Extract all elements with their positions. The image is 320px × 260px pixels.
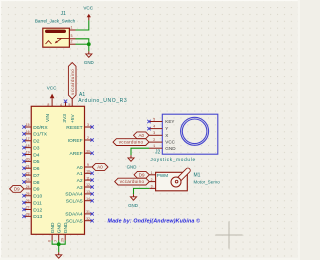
svg-text:32: 32 [86, 217, 90, 221]
joystick pin X (3) [149, 134, 162, 136]
pin GND (29) [64, 235, 66, 241]
connector J1 body [43, 28, 70, 47]
svg-text:J1: J1 [61, 11, 67, 17]
servo pin 1 [149, 174, 155, 176]
svg-text:D9: D9 [33, 187, 40, 193]
svg-text:31: 31 [86, 210, 90, 214]
pin D6 (21) [24, 167, 31, 169]
joystick pin KEY (5) [149, 121, 162, 123]
svg-text:D2: D2 [33, 139, 40, 145]
svg-text:23: 23 [26, 178, 30, 182]
svg-text:4: 4 [153, 125, 155, 129]
svg-text:28: 28 [26, 213, 30, 217]
J1 switch contact [56, 38, 70, 42]
wire J1.2 [76, 43, 89, 45]
svg-text:IOREF: IOREF [68, 138, 83, 144]
svg-text:3: 3 [151, 185, 153, 189]
svg-text:M1: M1 [194, 173, 201, 179]
svg-text:19: 19 [26, 151, 30, 155]
servo arm [174, 167, 191, 184]
pin RESET (3) [85, 126, 92, 128]
svg-text:1: 1 [71, 25, 73, 29]
pin IOREF (2) [85, 139, 92, 141]
svg-text:25: 25 [26, 192, 30, 196]
svg-text:3: 3 [71, 34, 73, 38]
svg-text:3: 3 [87, 123, 89, 127]
svg-text:A1: A1 [77, 171, 83, 177]
svg-text:X: X [165, 133, 168, 138]
svg-text:A3: A3 [77, 185, 83, 191]
svg-text:KEY: KEY [165, 119, 174, 124]
svg-text:A0: A0 [138, 133, 144, 138]
pin D10 (25) [24, 195, 31, 197]
svg-text:D9: D9 [14, 186, 20, 191]
svg-text:GND: GND [127, 164, 137, 169]
svg-text:D8: D8 [33, 180, 40, 186]
ground bottom [58, 252, 60, 255]
ground below J1 [88, 51, 90, 54]
svg-text:Arduino_UNO_R3: Arduino_UNO_R3 [78, 98, 127, 104]
wire J1.3 down [76, 39, 89, 44]
svg-text:1: 1 [151, 171, 153, 175]
joystick pin GND (1) [149, 147, 162, 149]
svg-text:2: 2 [151, 178, 153, 182]
wire to bottom gnd [58, 244, 60, 252]
svg-text:vccarduino: vccarduino [70, 69, 75, 95]
pin SDA/A4 (13) [85, 193, 92, 195]
pin D0/RX (15) [24, 126, 31, 128]
svg-text:5: 5 [153, 117, 155, 121]
svg-text:GND: GND [84, 60, 94, 65]
global label A0 (joystick) [134, 132, 150, 139]
svg-text:21: 21 [26, 164, 30, 168]
pin GND (6) [51, 235, 53, 241]
pin D13 (28) [24, 215, 31, 217]
pin D3 (18) [24, 147, 31, 149]
pin SDA/A4 (31) [85, 213, 92, 215]
svg-text:3V3: 3V3 [62, 114, 68, 123]
svg-text:D5: D5 [33, 159, 40, 165]
svg-text:vccarduino: vccarduino [120, 179, 145, 184]
joystick J2 body [162, 114, 218, 154]
svg-text:29: 29 [61, 238, 65, 242]
pin 3V3 no-connect [65, 101, 67, 106]
servo pin 3 [149, 187, 155, 189]
svg-text:VCC: VCC [47, 85, 57, 90]
svg-text:3: 3 [153, 131, 155, 135]
joystick inner circle [182, 119, 207, 144]
svg-text:2: 2 [153, 138, 155, 142]
wire bottom gnd bus [52, 240, 65, 244]
svg-text:VCC: VCC [165, 140, 175, 145]
pin +5V [71, 99, 73, 107]
pin D5 (20) [24, 160, 31, 162]
J1 barrel bar [45, 30, 66, 33]
wire J1.1 to VCC [76, 20, 89, 30]
svg-text:D1/TX: D1/TX [33, 132, 48, 138]
global label D9 [10, 185, 24, 192]
svg-text:D0/RX: D0/RX [33, 125, 48, 131]
global label vccarduino vertical [68, 63, 76, 99]
svg-text:GND: GND [165, 146, 176, 151]
joystick outer circle [181, 117, 209, 145]
svg-text:+5V: +5V [70, 114, 76, 123]
svg-text:SDA/A4: SDA/A4 [65, 192, 83, 198]
svg-text:27: 27 [26, 206, 30, 210]
svg-text:D6: D6 [33, 166, 40, 172]
svg-text:30: 30 [86, 149, 90, 153]
svg-text:16: 16 [26, 130, 30, 134]
junction bottom [57, 242, 61, 246]
svg-text:10: 10 [86, 170, 90, 174]
pin D12 (27) [24, 209, 31, 211]
pin D9 (24) [24, 188, 31, 190]
svg-text:A2: A2 [77, 178, 83, 184]
pin AREF (30) [85, 152, 92, 154]
svg-text:VCC: VCC [83, 5, 93, 10]
pin D7 (22) [24, 174, 31, 176]
pin D1/TX (16) [24, 133, 31, 135]
svg-text:13: 13 [86, 190, 90, 194]
svg-text:A0: A0 [97, 165, 103, 170]
sheet center cross [216, 234, 243, 236]
svg-text:1: 1 [153, 144, 155, 148]
pin A0 (9) [85, 166, 92, 168]
svg-text:14: 14 [86, 197, 90, 201]
global label vccarduino (servo) [115, 178, 150, 185]
svg-text:J2: J2 [155, 150, 161, 156]
pin A2 (11) [85, 179, 92, 181]
svg-text:D10: D10 [33, 194, 42, 200]
svg-text:17: 17 [26, 137, 30, 141]
svg-text:12: 12 [86, 183, 90, 187]
svg-text:6: 6 [48, 240, 52, 242]
pin A3 (12) [85, 186, 92, 188]
pin D8 (23) [24, 181, 31, 183]
svg-text:D13: D13 [33, 214, 42, 220]
svg-text:D9: D9 [139, 172, 145, 177]
pin A1 (10) [85, 172, 92, 174]
svg-text:SCL/A5: SCL/A5 [66, 199, 83, 205]
svg-text:D4: D4 [33, 152, 40, 158]
arduino U A1 body [31, 106, 84, 234]
svg-text:GND: GND [57, 222, 63, 233]
svg-text:PWM: PWM [157, 173, 168, 178]
svg-text:22: 22 [26, 171, 30, 175]
pin D4 (19) [24, 154, 31, 156]
svg-text:VIN: VIN [45, 113, 51, 122]
svg-text:11: 11 [86, 176, 90, 180]
svg-text:GND: GND [63, 222, 69, 233]
svg-text:RESET: RESET [66, 125, 82, 131]
sheet edge light strips [0, 0, 1, 260]
joystick pin VCC (2) [149, 141, 162, 143]
svg-text:9: 9 [87, 163, 89, 167]
J1 pin 1 [69, 29, 75, 31]
pin GND (7) [58, 235, 60, 241]
global label vccarduino (joystick) [113, 139, 149, 146]
ground joystick [130, 155, 132, 158]
svg-text:26: 26 [26, 199, 30, 203]
servo hub [175, 180, 178, 183]
svg-text:20: 20 [26, 158, 30, 162]
pin SCL/A5 (14) [85, 200, 92, 202]
svg-text:Motor_Servo: Motor_Servo [194, 180, 221, 185]
svg-text:vccarduino: vccarduino [119, 140, 144, 145]
J1 pin 2 [69, 43, 75, 45]
svg-text:15: 15 [26, 123, 30, 127]
svg-text:Barrel_Jack_Switch: Barrel_Jack_Switch [35, 19, 76, 24]
svg-text:24: 24 [26, 185, 30, 189]
servo M1 body [156, 172, 188, 191]
servo wheel [171, 177, 181, 187]
svg-text:SDA/A4: SDA/A4 [65, 212, 83, 218]
junction [87, 42, 91, 46]
global label D9 (servo) [134, 171, 149, 178]
svg-text:D3: D3 [33, 145, 40, 151]
wire joystick GND [131, 148, 149, 155]
pin D2 (17) [24, 140, 31, 142]
svg-text:Y: Y [165, 126, 168, 131]
servo pin 2 [149, 181, 155, 183]
ground servo [133, 194, 135, 197]
svg-text:A0: A0 [77, 165, 83, 171]
svg-text:2: 2 [71, 40, 73, 44]
svg-text:GND: GND [128, 203, 138, 208]
svg-text:7: 7 [54, 240, 58, 242]
wire servo gnd [134, 188, 150, 194]
svg-text:D12: D12 [33, 207, 42, 213]
svg-text:Made by: Ondřej(Andrew)Kubína: Made by: Ondřej(Andrew)Kubína © [108, 217, 201, 224]
J1 pin 3 [69, 38, 75, 40]
pin SCL/A5 (32) [85, 220, 92, 222]
svg-text:Joystick_module: Joystick_module [150, 157, 195, 162]
global label A0 (arduino) [92, 164, 108, 171]
svg-text:2: 2 [87, 136, 89, 140]
svg-text:D11: D11 [33, 200, 42, 206]
joystick pin Y (4) [149, 128, 162, 130]
wire junction to GND [88, 44, 90, 51]
svg-text:18: 18 [26, 144, 30, 148]
J1 switch chevron [46, 41, 52, 44]
svg-text:GND: GND [50, 222, 56, 233]
pin D11 (26) [24, 202, 31, 204]
svg-text:D7: D7 [33, 173, 40, 179]
svg-text:AREF: AREF [70, 151, 83, 157]
